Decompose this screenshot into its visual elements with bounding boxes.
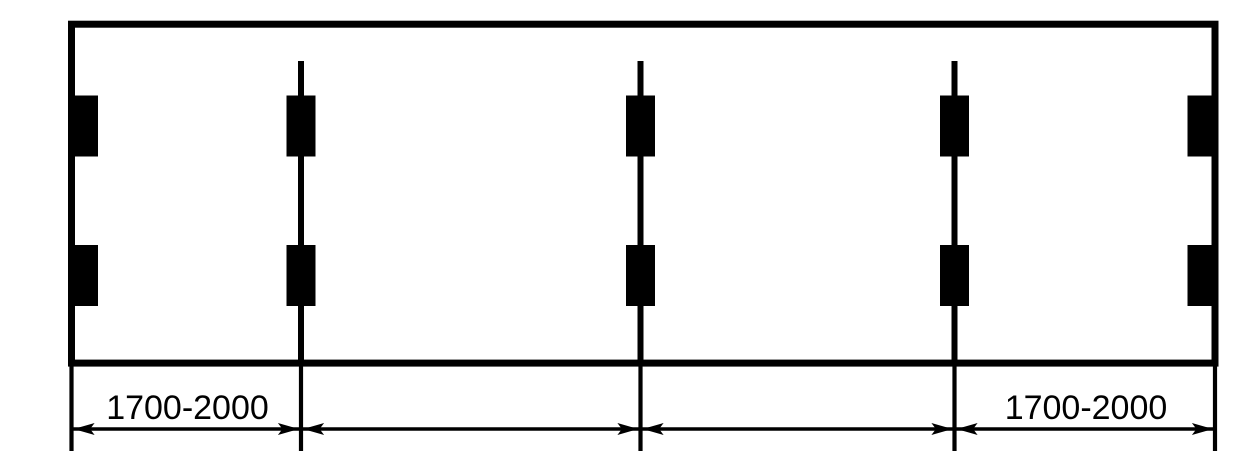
clamp block P4 lower (940, 245, 969, 306)
extension line E1 (69, 364, 73, 451)
clamp block P3 upper (626, 96, 655, 157)
arrowhead D4 left (957, 423, 978, 435)
clamp block right upper (1188, 96, 1219, 157)
post line P3 (638, 61, 644, 363)
clamp block left upper (68, 96, 98, 157)
arrowhead D4 right (1192, 423, 1213, 435)
extension line E3 (638, 364, 642, 451)
extension line E5 (1213, 364, 1217, 451)
arrowhead D1 right (278, 423, 299, 435)
arrowhead D3 right (931, 423, 952, 435)
clamp block right lower (1188, 245, 1219, 306)
dimension line D1 (74, 427, 300, 430)
clamp block P3 lower (626, 245, 655, 306)
svg-text:1700-2000: 1700-2000 (1005, 389, 1168, 427)
arrowhead D3 left (643, 423, 664, 435)
dimension line D3 (643, 427, 953, 430)
dimension line D4 (957, 427, 1214, 430)
post line P2 (298, 61, 304, 363)
arrowhead D1 left (74, 423, 95, 435)
arrowhead D2 right (617, 423, 638, 435)
clamp block P4 upper (940, 96, 969, 157)
svg-text:1700-2000: 1700-2000 (106, 389, 269, 427)
clamp block P2 lower (287, 245, 316, 306)
arrowhead D2 left (303, 423, 324, 435)
post line P4 (952, 61, 958, 363)
clamp block P2 upper (287, 96, 316, 157)
dimension line D2 (303, 427, 639, 430)
extension line E2 (299, 364, 303, 451)
wall outline rectangle (72, 24, 1216, 363)
clamp block left lower (68, 245, 98, 306)
extension line E4 (952, 364, 956, 451)
